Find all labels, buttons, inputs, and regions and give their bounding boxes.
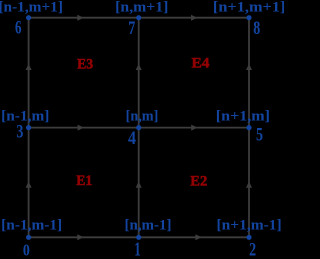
node 3 — [26, 125, 31, 130]
node 5 — [246, 125, 251, 130]
svg-text:[n,m]: [n,m] — [126, 108, 159, 124]
wire bottom edge (nodes 0-1-2) — [29, 236, 249, 238]
arrow edge 0-3 — [26, 181, 32, 187]
wire top edge (nodes 6-7-8) — [29, 17, 249, 19]
svg-text:8: 8 — [253, 19, 260, 39]
arrow edge 7-8 — [191, 15, 197, 21]
wire left vertical edge (nodes 0-3-6) — [28, 18, 30, 238]
node 1 — [136, 235, 141, 240]
arrow edge 2-5 — [246, 181, 252, 187]
arrow edge 5-8 — [246, 64, 252, 70]
svg-text:3: 3 — [16, 123, 23, 143]
wire center vertical edge (nodes 1-4-7) — [138, 18, 140, 238]
arrow edge 0-1 — [77, 234, 83, 240]
svg-text:0: 0 — [23, 241, 30, 259]
arrow edge 3-4 — [78, 125, 84, 131]
arrow edge 4-5 — [191, 125, 197, 131]
arrow edge 4-7 — [136, 64, 142, 70]
svg-text:E2: E2 — [190, 174, 207, 190]
node 4 — [136, 125, 141, 130]
svg-text:7: 7 — [128, 19, 135, 39]
svg-text:[n-1,m-1]: [n-1,m-1] — [1, 218, 62, 234]
arrow edge 1-2 — [195, 234, 201, 240]
svg-text:E4: E4 — [192, 56, 211, 72]
node 8 — [246, 15, 251, 20]
node 7 — [136, 15, 141, 20]
svg-text:[n+1,m+1]: [n+1,m+1] — [213, 0, 284, 15]
svg-text:[n+1,m]: [n+1,m] — [216, 108, 270, 124]
svg-text:[n-1,m+1]: [n-1,m+1] — [0, 0, 63, 15]
node 2 — [246, 235, 251, 240]
svg-text:[n-1,m]: [n-1,m] — [1, 108, 49, 124]
svg-text:6: 6 — [15, 18, 22, 38]
svg-text:1: 1 — [134, 239, 141, 259]
svg-text:[n+1,m-1]: [n+1,m-1] — [217, 218, 282, 234]
svg-text:2: 2 — [249, 241, 256, 259]
svg-text:4: 4 — [128, 129, 136, 149]
svg-text:E3: E3 — [77, 57, 93, 73]
node 6 — [26, 15, 31, 20]
arrow edge 6-7 — [77, 15, 83, 21]
arrow edge 1-4 — [136, 181, 142, 187]
svg-text:[n,m+1]: [n,m+1] — [115, 0, 168, 15]
svg-text:5: 5 — [256, 126, 263, 146]
wire right vertical edge (nodes 2-5-8) — [248, 18, 250, 238]
arrow edge 3-6 — [26, 64, 32, 70]
svg-text:E1: E1 — [76, 173, 92, 189]
node 0 — [26, 235, 31, 240]
wire middle horizontal edge (nodes 3-4-5) — [29, 127, 249, 129]
svg-text:[n,m-1]: [n,m-1] — [125, 218, 172, 234]
